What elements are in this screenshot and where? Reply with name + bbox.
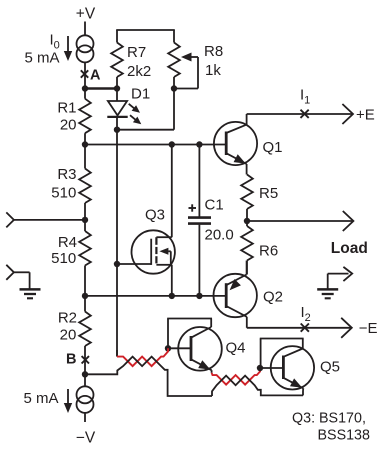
resistor R1 (79, 89, 91, 145)
junction dot R5/R6/output (244, 218, 250, 224)
svg-text:20: 20 (60, 327, 77, 344)
wire gate column into zigzag (116, 350, 118, 357)
C1 bottom wire (198, 225, 200, 296)
svg-text:R3: R3 (57, 166, 76, 183)
svg-text:BSS138: BSS138 (318, 428, 371, 444)
Q3 gate wire (117, 239, 151, 265)
R8 value 1k (205, 62, 221, 79)
R6 label (259, 242, 278, 259)
svg-text:Q3: BS170,: Q3: BS170, (292, 410, 366, 426)
R3 label (57, 166, 76, 183)
Q4 label (226, 340, 246, 357)
D1 label (131, 86, 150, 103)
-E output wire (247, 327, 351, 329)
Q3 body arrow (159, 248, 170, 264)
svg-text:2k2: 2k2 (127, 63, 151, 80)
C1 top wire (198, 145, 200, 217)
junction dot R7/D1 (114, 85, 120, 91)
resistor R6 (241, 221, 253, 275)
resistor R8 (trimmer) (168, 30, 180, 89)
input 2 terminal (6, 265, 14, 280)
input 1 terminal (6, 212, 14, 227)
Q5 collector loop (260, 339, 304, 369)
svg-text:C1: C1 (205, 197, 224, 214)
junction dot rail2 Q3 source (169, 293, 175, 299)
junction dot rail1 left (82, 141, 88, 147)
svg-text:I1: I1 (300, 87, 310, 107)
svg-text:R5: R5 (259, 185, 278, 202)
current direction arrow bottom (64, 389, 72, 413)
svg-text:Q2: Q2 (263, 289, 283, 306)
junction dot input 1 / R3 / R4 (82, 217, 88, 223)
wire rail2 (R4 bottom to Q2 base) (85, 295, 226, 297)
+E arrow (342, 104, 353, 124)
-E label (359, 320, 378, 337)
svg-text:I0: I0 (50, 31, 60, 51)
red zigzag wire gate to Q4 base (117, 348, 168, 366)
output wire to load (247, 220, 352, 222)
Q1 label (263, 139, 283, 156)
R2 label (58, 309, 77, 326)
ground symbol load (317, 289, 338, 298)
svg-text:Q4: Q4 (226, 340, 246, 357)
svg-text:D1: D1 (131, 86, 150, 103)
svg-text:510: 510 (51, 185, 76, 202)
ground symbol input 2 (20, 289, 41, 298)
svg-text:5 mA: 5 mA (24, 50, 59, 67)
svg-text:20: 20 (60, 117, 77, 134)
svg-text:510: 510 (51, 250, 76, 267)
R1 label (57, 100, 76, 117)
wire current source to node A (84, 62, 86, 88)
R8 wiper arrow (174, 53, 198, 89)
transistor Q5 circle (271, 346, 314, 389)
node A junction dot (82, 85, 88, 91)
svg-text:−E: −E (359, 320, 378, 337)
svg-text:1k: 1k (205, 62, 221, 79)
I0 label (50, 31, 60, 51)
current source I0 (two circles) (77, 35, 94, 62)
node B cross marker (82, 356, 89, 363)
junction dot Q4 base/collector (165, 345, 171, 351)
svg-text:+V: +V (76, 5, 96, 22)
Load label (331, 240, 368, 257)
node A label (90, 68, 101, 84)
note Q3 types line 1 (292, 410, 366, 426)
Q3 source tap (156, 265, 171, 296)
Q3 label (145, 206, 165, 223)
Q2 collector (226, 306, 247, 328)
Q5 emitter with arrow (283, 378, 303, 396)
transistor Q1 circle (214, 122, 257, 165)
svg-text:I2: I2 (301, 304, 311, 324)
current source 5 mA bottom (two circles) (77, 386, 94, 413)
Q4 base wire (168, 347, 191, 349)
wire input 2 to ground (14, 272, 30, 289)
red zigzag wire Q4 emitter to Q5 base (212, 368, 260, 385)
+E label (356, 107, 375, 124)
+V supply label (76, 5, 96, 22)
+E output wire (247, 113, 352, 115)
LED D1 cathode wire (116, 117, 118, 130)
transistor Q4 circle (178, 327, 222, 371)
current direction arrow I0 (64, 36, 72, 61)
Q2 label (263, 289, 283, 306)
wire input 1 (14, 219, 85, 221)
svg-text:A: A (90, 68, 101, 84)
junction dot D1 cathode (114, 127, 120, 133)
junction dot rail1 Q3 drain (169, 141, 175, 147)
5 mA label (bottom) (23, 390, 58, 407)
I2 cross marker (301, 324, 309, 332)
Q4 emitter with arrow (191, 359, 212, 373)
-E arrow (341, 318, 352, 338)
svg-text:+E: +E (356, 107, 375, 124)
svg-text:20.0: 20.0 (205, 227, 234, 244)
R4 value 510 (51, 250, 76, 267)
C1 label (205, 197, 224, 214)
R3 value 510 (51, 185, 76, 202)
LED D1 cathode bar (107, 116, 127, 118)
Q4 collector loop (167, 319, 212, 349)
R5 label (259, 185, 278, 202)
LED D1 triangle (108, 101, 127, 115)
svg-text:Q5: Q5 (320, 359, 340, 376)
Q1 emitter with arrow (226, 153, 246, 174)
resistor R4 (79, 220, 91, 296)
resistor R7 (111, 30, 123, 89)
junction dot R8 bottom (171, 85, 177, 91)
I2 label (301, 304, 311, 324)
wire +V to current source (84, 22, 86, 36)
5 mA label (top) (24, 50, 59, 67)
C1 value 20.0 (205, 227, 234, 244)
Q1 collector (226, 114, 246, 133)
output arrow (343, 211, 354, 231)
Q4 base bar (190, 336, 193, 361)
wire R8 junction down to D1 cathode (117, 89, 174, 130)
Q3 channel dashes (155, 237, 157, 263)
load return arrow and ground (328, 267, 353, 290)
Q5 base wire (260, 367, 283, 369)
Q1 base bar (225, 132, 228, 156)
junction dot Q5 base/collector (257, 365, 263, 371)
wire node A to R7/D1 column (85, 87, 117, 89)
black zigzag wire Q4 loop to Q5 emitter-loop (212, 376, 303, 396)
junction dot Q3 gate tap (114, 261, 120, 267)
svg-text:R8: R8 (204, 43, 223, 60)
R4 label (58, 234, 77, 251)
Q3 drain tap (156, 145, 171, 238)
resistor R5 (241, 175, 253, 222)
transistor Q3 MOSFET circle (132, 230, 175, 273)
R7 value 2k2 (127, 63, 151, 80)
R8 label (204, 43, 223, 60)
LED D1 light arrows (129, 104, 142, 124)
wire top bracket R7-R8 (116, 29, 175, 31)
wire rail1 (R1 bottom to Q1 base) (85, 144, 226, 146)
svg-text:R6: R6 (259, 242, 278, 259)
wire B to current source (84, 374, 86, 386)
R2 value 20 (60, 327, 77, 344)
I1 cross marker (301, 110, 309, 118)
R7 label (127, 44, 146, 61)
Q2 emitter with arrow (PNP) (226, 261, 246, 291)
gate column wire (D1 cathode down) (116, 130, 118, 356)
junction dot node B (82, 371, 88, 377)
Q5 label (320, 359, 340, 376)
C1 plus sign (189, 204, 197, 211)
black zigzag wire B to Q4 emitter-loop (85, 357, 212, 396)
svg-text:Load: Load (331, 240, 368, 257)
R1 value 20 (60, 117, 77, 134)
wire current source to -V (84, 413, 86, 422)
junction dot rail2 C1 (196, 293, 202, 299)
Q2 base bar (225, 283, 228, 308)
node B label (66, 352, 76, 368)
svg-text:Q1: Q1 (263, 139, 283, 156)
svg-text:R4: R4 (58, 234, 77, 251)
note Q3 types line 2 (318, 428, 371, 444)
transistor Q2 circle (214, 274, 257, 317)
capacitor C1 plates (188, 218, 211, 224)
resistor R2 (79, 296, 91, 374)
svg-text:Q3: Q3 (145, 206, 165, 223)
junction dot rail2 left (82, 293, 88, 299)
node A cross marker (81, 70, 88, 77)
svg-text:5 mA: 5 mA (23, 390, 58, 407)
svg-text:R1: R1 (57, 100, 76, 117)
Q5 base bar (282, 356, 285, 380)
svg-text:R2: R2 (58, 309, 77, 326)
svg-text:−V: −V (76, 430, 96, 447)
-V supply label (76, 430, 96, 447)
LED D1 anode wire (116, 89, 118, 102)
svg-text:R7: R7 (127, 44, 146, 61)
I1 label (300, 87, 310, 107)
svg-text:B: B (66, 352, 76, 368)
junction dot rail1 C1 (196, 141, 202, 147)
resistor R3 (79, 145, 91, 220)
